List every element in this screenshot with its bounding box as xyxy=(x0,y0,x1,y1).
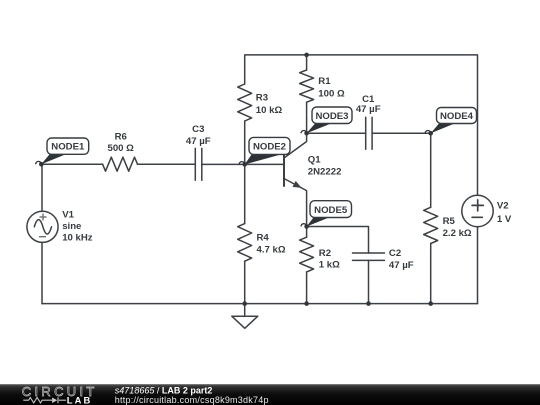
wire top bus from R3 top to V2 top xyxy=(245,55,478,195)
svg-text:47 µF: 47 µF xyxy=(186,136,211,147)
svg-text:LAB: LAB xyxy=(67,395,93,405)
footer bar xyxy=(0,384,540,405)
wire signal row NODE1 to R6 xyxy=(41,163,102,165)
resistor R5 xyxy=(424,207,438,243)
svg-text:R3: R3 xyxy=(256,93,268,104)
junction top bus / R1 xyxy=(304,53,309,58)
svg-text:R4: R4 xyxy=(257,233,270,244)
node NODE3 label xyxy=(301,107,352,133)
wire R5 bottom to bottom bus xyxy=(430,244,432,304)
svg-text:1 kΩ: 1 kΩ xyxy=(319,260,340,271)
svg-text:4.7 kΩ: 4.7 kΩ xyxy=(257,244,286,255)
svg-text:NODE2: NODE2 xyxy=(253,142,286,153)
wire C1 to NODE4 xyxy=(372,132,431,134)
ground xyxy=(232,304,258,329)
node NODE3 junction xyxy=(304,131,309,136)
svg-text:2.2 kΩ: 2.2 kΩ xyxy=(443,228,472,239)
resistor R1 xyxy=(300,70,314,102)
component value labels xyxy=(62,76,512,271)
source V1 xyxy=(27,211,58,242)
svg-text:100 Ω: 100 Ω xyxy=(318,89,345,100)
node NODE1 junction xyxy=(39,162,44,167)
wire R4 bottom to bottom bus xyxy=(244,261,246,303)
svg-text:R1: R1 xyxy=(318,76,331,87)
svg-text:47 µF: 47 µF xyxy=(356,104,381,115)
wire NODE3 to C1 xyxy=(307,132,366,134)
node NODE5 junction xyxy=(304,224,309,229)
junction R5 / bottom bus xyxy=(428,301,433,306)
node NODE1 label xyxy=(36,138,89,164)
V1 polarity marks xyxy=(39,214,47,237)
node NODE2 label xyxy=(239,137,290,164)
wire R3 bottom to NODE2 to R4 top xyxy=(244,121,246,224)
source V2 xyxy=(462,195,493,226)
svg-text:s4718665 / LAB 2 part2: s4718665 / LAB 2 part2 xyxy=(115,385,213,395)
wire R2 top from NODE5 xyxy=(306,227,308,238)
junction R2 / bottom bus xyxy=(304,301,309,306)
svg-text:10 kΩ: 10 kΩ xyxy=(256,105,283,116)
svg-text:NODE4: NODE4 xyxy=(440,111,474,122)
capacitor C2 xyxy=(353,253,385,260)
svg-text:R2: R2 xyxy=(319,248,331,259)
svg-text:1 V: 1 V xyxy=(497,214,512,225)
wire V1 branch upper xyxy=(41,164,43,211)
svg-text:V1: V1 xyxy=(62,210,74,221)
wire R2 bottom xyxy=(306,272,308,304)
wire bottom bus xyxy=(42,303,478,305)
resistor R6 xyxy=(103,157,138,171)
node NODE4 label xyxy=(425,108,476,134)
wire R1 top xyxy=(306,55,308,70)
svg-text:http://circuitlab.com/csq8k9m3: http://circuitlab.com/csq8k9m3dk74p xyxy=(115,395,269,405)
svg-text:47 µF: 47 µF xyxy=(389,260,414,271)
svg-text:C3: C3 xyxy=(192,124,204,135)
wire V2 bottom to bottom bus xyxy=(477,227,479,304)
resistor R3 xyxy=(238,84,252,121)
Q1 emitter arrow xyxy=(293,181,302,188)
junction ground / bottom bus xyxy=(242,301,247,306)
wire R6 to C3 xyxy=(138,163,196,165)
capacitor C3 xyxy=(195,148,202,180)
node NODE4 junction xyxy=(428,131,433,136)
junction C2 / bottom bus xyxy=(366,301,371,306)
wire base NODE2 to Q1 xyxy=(245,163,284,165)
wire R1 bottom to NODE3 xyxy=(306,102,308,133)
node NODE5 label xyxy=(301,201,352,227)
svg-text:R5: R5 xyxy=(443,216,456,227)
svg-text:10 kHz: 10 kHz xyxy=(62,233,93,244)
node NODE2 junction xyxy=(242,162,247,167)
wire V1 branch lower xyxy=(41,243,43,304)
resistor R2 xyxy=(300,237,314,272)
wire NODE4 to R5 top xyxy=(430,133,432,207)
wire C2 bottom to bottom bus xyxy=(368,260,370,303)
svg-text:2N2222: 2N2222 xyxy=(308,166,342,177)
svg-text:500 Ω: 500 Ω xyxy=(108,143,135,154)
svg-text:NODE3: NODE3 xyxy=(315,111,348,122)
logo waveform xyxy=(23,397,66,403)
svg-text:R6: R6 xyxy=(115,131,127,142)
capacitor C1 xyxy=(366,117,372,149)
node label flags xyxy=(36,107,477,227)
svg-text:NODE1: NODE1 xyxy=(51,142,85,153)
svg-text:NODE5: NODE5 xyxy=(314,205,348,216)
svg-text:C2: C2 xyxy=(389,248,401,259)
svg-text:Q1: Q1 xyxy=(308,154,321,165)
resistor R4 xyxy=(238,224,252,262)
wire NODE5 to C2 top xyxy=(307,227,369,254)
logo diode triangle xyxy=(52,398,57,404)
svg-text:sine: sine xyxy=(62,221,81,232)
wire C3 to NODE2 xyxy=(202,163,245,165)
svg-text:V2: V2 xyxy=(497,201,509,212)
transistor Q1 xyxy=(284,133,307,226)
